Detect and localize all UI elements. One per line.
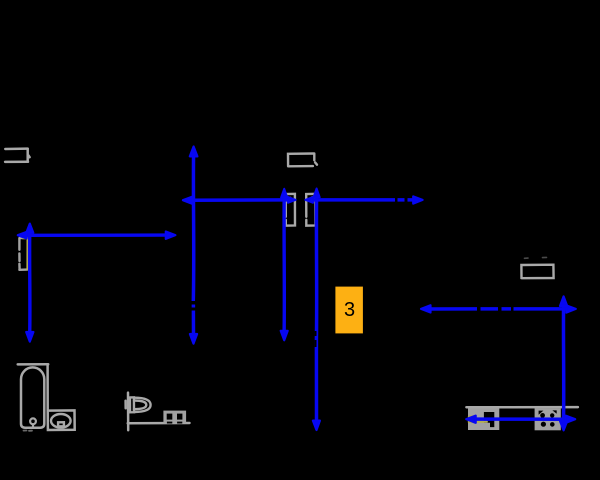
dimension arrow V1 (left vertical) <box>26 224 33 342</box>
dimension arrow H3 (right horizontal upper) <box>421 305 576 312</box>
dimension arrow V3 (door-left vertical) <box>281 189 288 340</box>
dimension arrow H4 (kitchen horizontal) <box>466 416 575 423</box>
bathtub <box>21 367 44 427</box>
dimension arrow H2b (door right to wall) <box>305 196 422 203</box>
bathtub drain <box>30 418 36 427</box>
door jamb left-wall (yellow highlighted) <box>19 238 27 270</box>
yellow tick on left jamb <box>288 197 290 199</box>
dimension arrow H2a (to door left) <box>183 197 296 204</box>
kitchen sink cabinet block <box>468 408 499 430</box>
dimension arrow H1 (left horizontal) <box>18 232 176 239</box>
nicks on arrow V4 <box>315 331 317 347</box>
window symbol above door (top-center) <box>288 154 317 167</box>
stove block <box>535 408 561 430</box>
toilet bowl <box>51 414 71 428</box>
yellow tick on right jamb <box>312 196 314 198</box>
sink bottom wall line <box>128 422 190 425</box>
door jamb right (center) <box>306 194 315 226</box>
bathtub wall corner <box>18 364 49 410</box>
room label 3 (orange) <box>335 287 363 334</box>
svg-text:3: 3 <box>344 299 355 321</box>
door jamb left (center) <box>286 194 295 226</box>
yellow fringes under kitchen arrow <box>469 416 546 422</box>
sink wall line <box>126 393 129 431</box>
four-pane window symbol (bottom-center) <box>163 411 186 424</box>
dimension arrow V5 (right vertical) <box>560 296 567 430</box>
wall bracket top-left <box>5 149 30 162</box>
window symbol right <box>521 257 553 278</box>
bathtub feet marks <box>24 430 33 432</box>
toilet box <box>48 410 75 430</box>
dimension arrow V4 (door-right long vertical) <box>313 189 320 431</box>
sink basin <box>130 397 151 412</box>
toilet seat rect <box>58 422 64 426</box>
kitchen counter line <box>466 406 578 409</box>
dimension arrow V2 (tall center-left vertical) <box>190 147 198 344</box>
